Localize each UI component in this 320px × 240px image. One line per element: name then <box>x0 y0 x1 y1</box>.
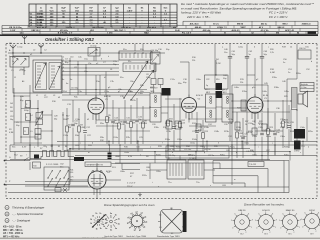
svg-text:S5: S5 <box>58 146 60 148</box>
svg-text:10n: 10n <box>224 52 227 54</box>
svg-text:5 Ohm: 5 Ohm <box>301 87 307 89</box>
svg-text:5: 5 <box>231 220 232 222</box>
svg-text:S1c: S1c <box>128 61 131 63</box>
svg-text:7: 7 <box>265 211 266 213</box>
svg-text:C1 2p: C1 2p <box>17 47 23 49</box>
svg-text:25u: 25u <box>70 179 73 181</box>
svg-text:6,3V: 6,3V <box>22 147 27 149</box>
svg-text:1,2k: 1,2k <box>270 52 274 54</box>
svg-text:MB 0,2: MB 0,2 <box>278 27 286 29</box>
svg-text:C12a: C12a <box>63 135 69 137</box>
svg-text:47k: 47k <box>132 123 135 125</box>
svg-text:R13a: R13a <box>165 139 171 141</box>
svg-text:EABC 80: EABC 80 <box>286 209 295 212</box>
svg-text:g1: g1 <box>144 217 146 219</box>
svg-text:C25 10n: C25 10n <box>184 149 191 151</box>
svg-text:0,5M: 0,5M <box>238 133 243 135</box>
svg-text:C61a: C61a <box>190 143 196 145</box>
svg-text:LAMP: LAMP <box>115 155 121 158</box>
svg-text:g1: g1 <box>141 213 143 215</box>
svg-text:4: 4 <box>280 227 281 229</box>
svg-text:1k5: 1k5 <box>10 103 13 105</box>
svg-text:R15 47k: R15 47k <box>188 155 195 157</box>
svg-text:g1: g1 <box>129 227 131 229</box>
svg-text:mA: mA <box>115 10 119 13</box>
svg-text:220 V Jev. = 55 -: 220 V Jev. = 55 - <box>186 15 210 19</box>
svg-text:C35a: C35a <box>280 119 286 121</box>
svg-text:6,3: 6,3 <box>170 208 172 210</box>
svg-text:d: d <box>311 61 312 63</box>
svg-text:1M: 1M <box>10 111 13 113</box>
svg-text:6: 6 <box>234 214 235 216</box>
svg-text:6,3V: 6,3V <box>128 156 133 158</box>
svg-text:R31a: R31a <box>176 147 182 149</box>
svg-text:C41a: C41a <box>238 47 244 49</box>
svg-text:FC 2 = 180 V.: FC 2 = 180 V. <box>269 15 288 19</box>
svg-text:Vk*: Vk* <box>89 7 93 9</box>
svg-text:q: q <box>236 152 237 154</box>
svg-text:4: 4 <box>232 227 233 229</box>
svg-text:L5: L5 <box>31 131 33 133</box>
svg-text:25k 1W: 25k 1W <box>168 149 175 151</box>
svg-text:kΩ: kΩ <box>153 11 156 13</box>
svg-text:1k: 1k <box>100 228 102 230</box>
svg-text:C63a: C63a <box>296 143 302 145</box>
svg-text:C22: C22 <box>206 79 209 81</box>
svg-text:1k: 1k <box>245 124 247 126</box>
svg-text:Vg**: Vg** <box>75 7 80 9</box>
svg-text:50p: 50p <box>10 119 13 121</box>
svg-text:2n: 2n <box>288 72 290 74</box>
svg-text:7: 7 <box>311 210 312 212</box>
svg-text:KB 16,5-52m: KB 16,5-52m <box>9 27 22 29</box>
svg-text:KB2 49 m: KB2 49 m <box>121 26 131 29</box>
svg-text:C31a: C31a <box>248 123 254 125</box>
svg-text:1: 1 <box>251 227 252 229</box>
svg-text:10n: 10n <box>276 132 279 134</box>
svg-text:L4: L4 <box>31 115 33 117</box>
svg-text:8: 8 <box>296 213 297 215</box>
svg-text:R21a: R21a <box>228 119 234 121</box>
svg-text:5: 5 <box>279 220 280 222</box>
svg-text:C12: C12 <box>10 116 13 118</box>
svg-text:mA: mA <box>39 10 43 13</box>
svg-text:2: 2 <box>245 232 246 234</box>
svg-text:Ia*: Ia* <box>103 7 106 9</box>
svg-text:AUL 45,4: AUL 45,4 <box>190 22 200 25</box>
svg-text:NETAFBRYDER 7M: NETAFBRYDER 7M <box>87 164 104 167</box>
svg-text:n: n <box>140 154 141 156</box>
svg-text:C14a: C14a <box>113 123 119 125</box>
svg-text:C75: C75 <box>70 177 73 179</box>
svg-text:MB. OSC. 1: MB. OSC. 1 <box>114 30 126 32</box>
svg-text:1k: 1k <box>90 223 92 225</box>
svg-text:EM 84: EM 84 <box>237 22 244 25</box>
svg-text:2,2M: 2,2M <box>216 63 221 65</box>
svg-text:ANT. 60 pF: ANT. 60 pF <box>37 26 48 29</box>
svg-text:1: 1 <box>275 227 276 229</box>
svg-text:g1: g1 <box>136 211 138 213</box>
svg-text:- „ - Sperretast Forstærk: - „ - Sperretast Forstærker <box>12 212 43 216</box>
svg-text:2: 2 <box>269 232 270 234</box>
svg-text:Volt: Volt <box>89 10 93 13</box>
svg-text:Volt: Volt <box>75 10 79 13</box>
svg-text:10n: 10n <box>146 170 149 172</box>
svg-text:MB 2: MB 2 <box>283 23 289 25</box>
svg-text:3: 3 <box>238 232 239 234</box>
svg-text:R41: R41 <box>70 169 73 171</box>
svg-text:Omskifter i Stilling KB2: Omskifter i Stilling KB2 <box>45 37 94 42</box>
svg-text:150: 150 <box>70 172 73 174</box>
svg-text:C6 20p: C6 20p <box>90 46 97 48</box>
svg-text:ECH 81: ECH 81 <box>262 210 270 212</box>
svg-text:470k: 470k <box>284 122 288 124</box>
svg-text:g1: g1 <box>145 222 147 224</box>
svg-text:g1: g1 <box>143 227 145 229</box>
svg-text:5n: 5n <box>283 62 285 64</box>
svg-text:C26 50p: C26 50p <box>168 155 175 157</box>
svg-text:forbrug: 220 V Vex = 60 Wat: forbrug: 220 V Vex = 60 Watt <box>181 11 221 15</box>
svg-text:C16a: C16a <box>139 123 145 125</box>
svg-text:S1d: S1d <box>63 91 67 93</box>
svg-text:5n: 5n <box>114 120 116 122</box>
svg-text:1M: 1M <box>144 123 147 125</box>
svg-text:Disse Spændingsgrupper set fra: Disse Spændingsgrupper set fra oven. <box>104 203 155 207</box>
svg-text:8: 8 <box>248 213 249 215</box>
svg-text:TRIMM. V: TRIMM. V <box>65 27 75 29</box>
svg-text:C24a: C24a <box>113 137 119 139</box>
svg-text:c: c <box>268 47 269 49</box>
svg-text:g1: g1 <box>127 222 129 224</box>
svg-text:g1: g1 <box>139 230 141 232</box>
svg-text:7,5k 2W: 7,5k 2W <box>249 164 256 166</box>
svg-text:9: 9 <box>276 220 277 222</box>
svg-text:1k: 1k <box>95 213 97 215</box>
svg-text:MAX: MAX <box>144 32 149 35</box>
svg-text:6,3: 6,3 <box>159 227 161 229</box>
svg-text:C13 50p: C13 50p <box>71 87 78 89</box>
svg-text:C13a: C13a <box>104 91 110 93</box>
svg-text:C5c: C5c <box>88 63 92 65</box>
svg-text:MB 185-580: MB 185-580 <box>92 27 104 29</box>
svg-text:1k: 1k <box>99 213 101 215</box>
svg-text:C21a: C21a <box>177 123 183 125</box>
svg-text:ALM 4,5: ALM 4,5 <box>232 29 241 32</box>
svg-text:0,3M: 0,3M <box>80 127 85 129</box>
svg-text:Tilslutning til Baandoptager: Tilslutning til Baandoptager <box>12 206 45 210</box>
svg-text:EM: EM <box>276 33 279 35</box>
svg-text:s: s <box>300 152 301 154</box>
svg-text:3: 3 <box>286 232 287 234</box>
svg-text:MB: MB <box>173 27 177 29</box>
svg-text:R10: R10 <box>216 79 219 81</box>
svg-text:R17: R17 <box>66 116 69 118</box>
svg-text:C64a: C64a <box>124 152 130 154</box>
svg-text:EBF 80 V: EBF 80 V <box>31 30 41 32</box>
svg-text:ECH 81: ECH 81 <box>196 95 204 97</box>
svg-text:42 V: 42 V <box>259 26 264 29</box>
svg-text:er maalt med Rørvoltmeter. S: er maalt med Rørvoltmeter. Samtlige Spæn… <box>181 6 297 10</box>
svg-text:g1: g1 <box>134 230 136 232</box>
svg-text:1k: 1k <box>96 228 98 230</box>
svg-text:c: c <box>80 143 81 145</box>
svg-text:C62a: C62a <box>244 143 250 145</box>
svg-text:5n: 5n <box>249 54 251 56</box>
svg-text:2k: 2k <box>108 118 110 120</box>
svg-text:h: h <box>218 143 219 145</box>
svg-text:40u: 40u <box>60 166 63 168</box>
svg-text:5: 5 <box>255 220 256 222</box>
svg-text:2 x 6,3 V: 2 x 6,3 V <box>127 183 136 185</box>
svg-text:S6: S6 <box>65 146 67 148</box>
svg-text:S4: S4 <box>51 146 53 148</box>
svg-text:0,1M: 0,1M <box>120 124 125 126</box>
svg-text:P.U. 0,5 V: P.U. 0,5 V <box>182 33 192 35</box>
svg-text:g1: g1 <box>131 213 133 215</box>
svg-text:C66a: C66a <box>252 154 258 156</box>
svg-text:R35a: R35a <box>220 154 226 156</box>
svg-text:S 1 S 2 OMSK.: S 1 S 2 OMSK. <box>46 164 59 166</box>
svg-text:mA/V: mA/V <box>127 10 133 13</box>
svg-text:P.U.: P.U. <box>302 146 306 148</box>
svg-text:1-2 W: 1-2 W <box>10 30 16 32</box>
svg-text:452 kc: 452 kc <box>261 22 268 25</box>
svg-text:452 kHz: 452 kHz <box>203 29 211 32</box>
svg-text:mA: mA <box>103 10 107 13</box>
svg-text:22k: 22k <box>192 60 195 62</box>
svg-text:R24a: R24a <box>266 136 272 138</box>
svg-text:50 c/s: 50 c/s <box>213 23 220 25</box>
svg-text:B Ø KOBL. 2 V: B Ø KOBL. 2 V <box>58 33 73 35</box>
svg-text:2: 2 <box>315 231 316 233</box>
svg-text:205551-4: 205551-4 <box>302 22 312 25</box>
svg-text:C26a: C26a <box>177 139 183 141</box>
svg-text:1k: 1k <box>92 215 94 217</box>
svg-text:1k: 1k <box>90 219 92 221</box>
svg-text:m: m <box>88 152 90 154</box>
svg-text:5p: 5p <box>206 85 208 87</box>
svg-text:0,3M: 0,3M <box>270 72 275 74</box>
svg-text:R3: R3 <box>9 129 11 131</box>
svg-text:Disse Rørsokler set fra neden.: Disse Rørsokler set fra neden. <box>244 203 285 207</box>
svg-text:FC 1 = 225 V: FC 1 = 225 V <box>269 11 288 15</box>
svg-text:Volt: Volt <box>50 10 54 13</box>
svg-text:- „ - Drejelagret: - „ - Drejelagret <box>12 219 30 223</box>
svg-text:220 V: 220 V <box>127 186 133 188</box>
svg-text:1M: 1M <box>68 127 71 129</box>
svg-text:408-40: 408-40 <box>195 26 202 29</box>
svg-text:EL 84: EL 84 <box>309 210 315 212</box>
svg-text:9: 9 <box>252 220 253 222</box>
svg-text:0,3M: 0,3M <box>9 132 14 134</box>
svg-text:5: 5 <box>301 219 302 221</box>
svg-text:R32a: R32a <box>230 147 236 149</box>
svg-text:40p: 40p <box>54 119 57 121</box>
svg-text:6,3: 6,3 <box>159 215 161 217</box>
svg-text:8: 8 <box>318 212 319 214</box>
svg-text:C27 5n: C27 5n <box>208 155 214 157</box>
svg-text:6,3: 6,3 <box>171 233 173 235</box>
svg-text:S10: S10 <box>33 165 36 167</box>
svg-text:R34a: R34a <box>156 154 162 156</box>
svg-text:8: 8 <box>272 213 273 215</box>
svg-text:KOBL 7 V: KOBL 7 V <box>217 27 227 29</box>
svg-text:J: J <box>9 56 10 58</box>
svg-text:25u: 25u <box>280 123 283 125</box>
svg-text:1 kHz: 1 kHz <box>107 33 112 35</box>
svg-text:6: 6 <box>304 213 305 215</box>
svg-text:R36a: R36a <box>284 154 290 156</box>
svg-text:Vg2*: Vg2* <box>61 7 66 9</box>
svg-text:1: 1 <box>299 227 300 229</box>
svg-text:C36a: C36a <box>280 136 286 138</box>
svg-text:R14a: R14a <box>192 139 198 141</box>
svg-text:6: 6 <box>258 214 259 216</box>
svg-text:EZ 80: EZ 80 <box>106 171 112 173</box>
svg-text:Højttaler: Højttaler <box>301 83 309 86</box>
svg-text:C28: C28 <box>54 116 57 118</box>
svg-text:EBF 80: EBF 80 <box>239 210 247 212</box>
svg-text:6: 6 <box>282 214 283 216</box>
svg-text:R33a: R33a <box>284 147 290 149</box>
svg-text:3: 3 <box>308 231 309 233</box>
svg-text:R23a: R23a <box>240 136 246 138</box>
svg-text:De med * mærkede Spændinger er: De med * mærkede Spændinger er maalt med… <box>181 2 315 6</box>
svg-text:EBF 80: EBF 80 <box>104 96 112 98</box>
svg-text:7: 7 <box>289 211 290 213</box>
svg-text:R14 1M: R14 1M <box>204 149 211 151</box>
svg-text:g1: g1 <box>127 217 129 219</box>
svg-text:4: 4 <box>302 226 303 228</box>
svg-text:u: u <box>158 186 159 188</box>
svg-text:7: 7 <box>241 211 242 213</box>
svg-text:2: 2 <box>293 232 294 234</box>
svg-text:TAST: TAST <box>240 26 246 29</box>
svg-text:415 kHz: 415 kHz <box>60 29 68 32</box>
svg-text:0,5M: 0,5M <box>228 123 233 125</box>
svg-text:d: d <box>92 143 93 145</box>
svg-text:4: 4 <box>256 227 257 229</box>
svg-text:3: 3 <box>262 232 263 234</box>
svg-text:AUL 45,4: AUL 45,4 <box>147 26 157 29</box>
svg-text:Volt: Volt <box>62 10 66 13</box>
svg-text:C33a: C33a <box>252 136 258 138</box>
